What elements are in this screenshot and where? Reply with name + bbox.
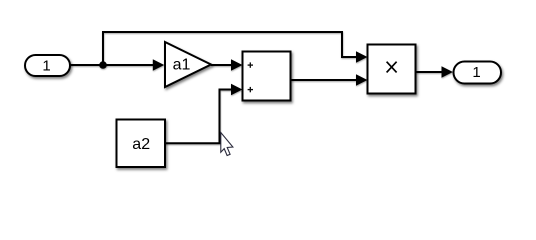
wire a1 to sum input 1 <box>211 59 242 71</box>
svg-text:a1: a1 <box>173 57 191 74</box>
svg-text:1: 1 <box>42 57 50 74</box>
wire sum to product input 2 <box>291 74 367 86</box>
svg-text:a2: a2 <box>132 136 150 153</box>
wire junction to product input 1 <box>103 32 367 65</box>
svg-text:1: 1 <box>472 64 480 81</box>
node junction <box>99 61 107 69</box>
wire a2 to sum input 2 <box>165 84 242 144</box>
wire junction to gain a1 <box>103 59 164 71</box>
input port In1 <box>25 55 70 76</box>
product block <box>368 45 416 94</box>
wire product to Out1 <box>416 66 453 78</box>
wire In1 to junction <box>69 64 103 66</box>
sum block Add <box>243 52 291 101</box>
gain block a1 <box>165 42 211 87</box>
output port Out1 <box>454 62 502 84</box>
block a2 <box>117 120 166 168</box>
mouse cursor <box>221 133 233 156</box>
